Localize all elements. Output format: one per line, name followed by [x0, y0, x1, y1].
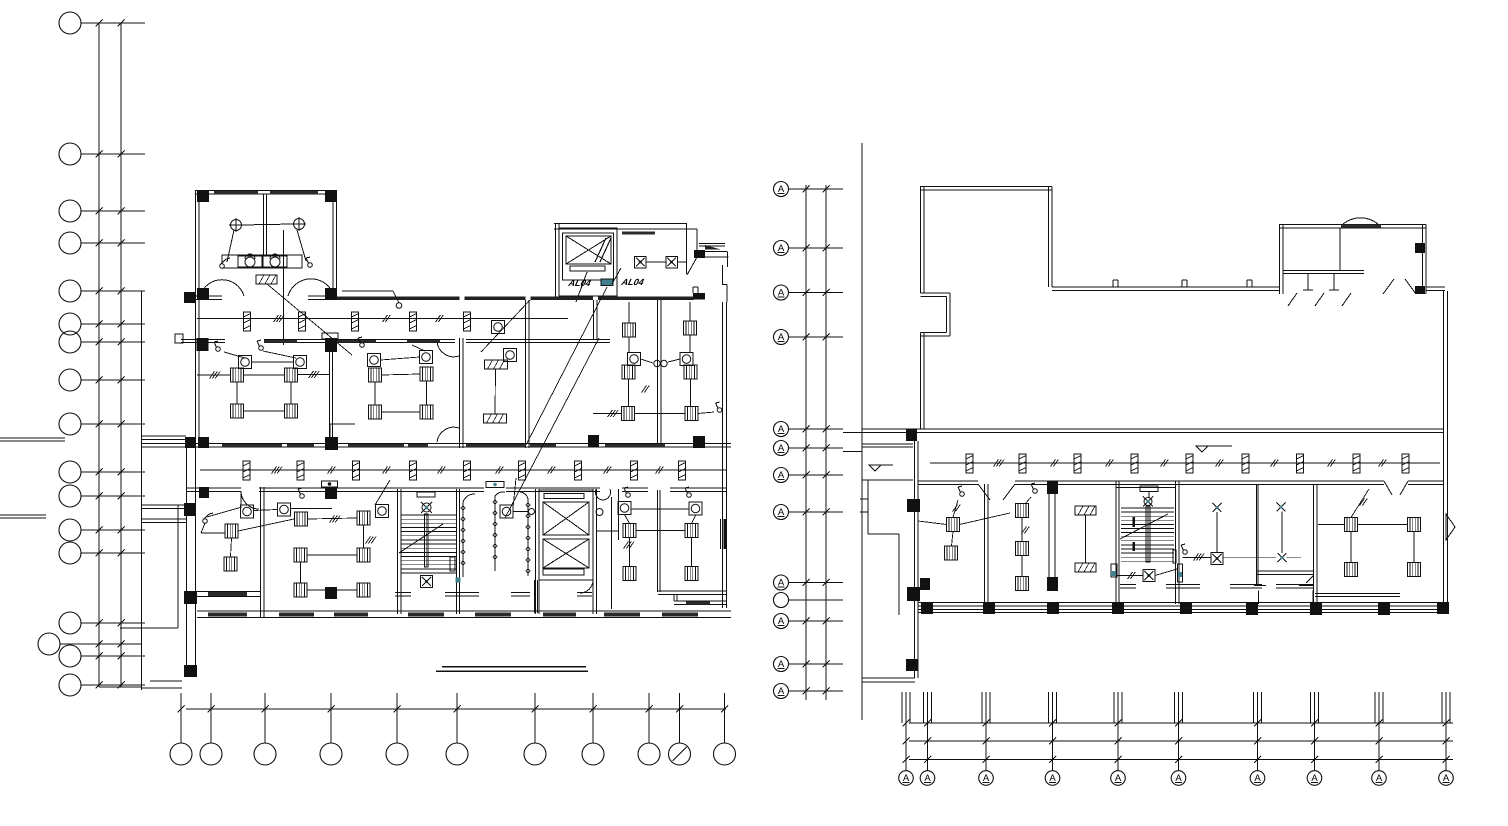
room B desk 1 [369, 368, 382, 382]
small room walls [860, 480, 899, 615]
bath mid wall [264, 194, 267, 255]
corridor2 fixture 4 [410, 461, 417, 480]
A line double y448 [843, 451, 862, 453]
rb grid stems 2 [924, 692, 932, 723]
corridor2 fixture 9 [679, 461, 686, 480]
wing fixture 8 [1353, 454, 1360, 473]
column bottom mid [325, 587, 337, 599]
stair fan xsq [421, 576, 433, 588]
ceiling light 2 [292, 217, 306, 231]
bottom grid bubble 11 [714, 693, 736, 765]
corridor2 fixture 6 [519, 461, 526, 480]
wall stub t3 [1247, 280, 1252, 287]
bath counter [222, 255, 302, 268]
column c2b 2 [325, 487, 337, 499]
room B switch [358, 337, 364, 347]
A bubble left 9 [774, 575, 844, 590]
rb grid bubble 1 [899, 720, 914, 786]
room A wire east [298, 374, 331, 376]
A bubble left 4 [774, 330, 844, 345]
room D desk top 2 [684, 321, 697, 335]
wing door ajar 2 [1384, 481, 1408, 495]
room E wire low [201, 523, 225, 533]
wing room E line [1315, 594, 1400, 597]
bottom grid bubble 4 [320, 693, 342, 765]
corridor2 fixture 8 [631, 461, 638, 480]
room G lamp 1 [618, 502, 631, 515]
room A lamp 1 [239, 356, 252, 369]
corridor2 slashes b [328, 467, 336, 474]
wire mirror diag [267, 284, 352, 355]
bottom grid bubble 3 [254, 693, 276, 765]
wall x659 [658, 300, 662, 444]
door arc room B bottom [437, 427, 459, 442]
wall wing v3 [1257, 484, 1259, 585]
stair2 arrows [1132, 517, 1135, 551]
A bubble left 3 [774, 285, 844, 300]
corridor2 fixture 5 [464, 461, 471, 480]
elevator2 bottom sill [543, 569, 584, 575]
wire light2 switch [297, 230, 306, 261]
room D wire h2 [635, 413, 685, 415]
block2 partition v [1339, 228, 1341, 270]
room D wire h3 [698, 412, 714, 414]
wing wire slashes g [1328, 460, 1336, 467]
column c2 1 [185, 437, 196, 448]
corridor1 switch [396, 303, 402, 309]
block left wall [556, 223, 560, 297]
corridor1 top wall [337, 297, 694, 301]
elevator 1 inner [563, 233, 614, 280]
grid bubble row 6 [59, 313, 145, 335]
elevator2 outer [539, 490, 593, 580]
stair2 treads [1121, 508, 1174, 561]
corridor1 fixture 1 [244, 312, 251, 331]
column block2 2 [1415, 286, 1425, 294]
room A wire d12 [244, 374, 285, 376]
rb grid bubble 4 [1045, 720, 1060, 786]
wire x611 [611, 497, 613, 609]
A bubble left 5 [774, 422, 844, 437]
wing fixture 2 [1019, 454, 1026, 473]
xcirc room1 a [1213, 503, 1222, 512]
corridor2 wire [200, 469, 727, 471]
corridor1 fixture 3 [352, 312, 359, 331]
level mark 1 [869, 465, 893, 471]
wing bottom column 4 [1112, 602, 1124, 614]
stair light xcirc [421, 502, 432, 513]
grid line vertical 3 [141, 291, 143, 690]
rb grid stems 7 [1254, 692, 1262, 723]
room D wire v1 [629, 302, 690, 352]
panel AL04 teal [601, 279, 613, 286]
basin 2 [270, 254, 280, 267]
right main vline lower [861, 682, 863, 720]
hall wire [513, 478, 529, 512]
block2 wall to edge [1426, 287, 1445, 291]
wire light1 switch [227, 230, 234, 262]
room A desk 4 [285, 404, 298, 418]
wing wire slashes e [1216, 460, 1224, 467]
corridor2 fixture 3 [353, 461, 360, 480]
room D lamp 2 [680, 353, 693, 366]
room B wire v1 [374, 382, 376, 405]
room F desk 4 [357, 548, 370, 562]
wire fan right [677, 261, 687, 263]
balcony lines NE [699, 244, 729, 258]
corridor1 wire slashes a [274, 315, 285, 322]
rb grid bubble 8 [1307, 720, 1322, 786]
wing room E wire v2 [1413, 532, 1415, 563]
bath left wall [196, 190, 200, 300]
wire diag long 2 [505, 338, 599, 518]
wing left wall [915, 441, 919, 678]
grid line vertical 2 [120, 23, 122, 687]
room D slashes2 [642, 386, 650, 393]
room E wire [231, 510, 295, 558]
rb grid bubble 3 [979, 720, 994, 786]
panel on wall 1 [322, 481, 338, 487]
grid bubble offset [38, 633, 141, 655]
block inner wall right [686, 224, 688, 275]
xcirc room2 b [1278, 553, 1287, 562]
room E lamp 1 [241, 505, 254, 518]
wire chain 1 [461, 502, 465, 577]
corridor2 slashes e [496, 467, 504, 474]
wing rooms top wall [918, 481, 1443, 485]
room B desk 3 [369, 405, 382, 419]
block2 left wall [1280, 224, 1284, 294]
column bath NE [325, 190, 337, 202]
rb grid bubble 10 [1439, 720, 1454, 786]
room bottom wall mid [395, 593, 592, 597]
left wall mid [196, 296, 200, 440]
scale bar [436, 667, 588, 672]
A bubble left 7 [774, 468, 844, 483]
rb grid stems 3 [982, 692, 990, 723]
door arc elevator hall [580, 580, 593, 593]
room G slashes [624, 542, 635, 549]
rooms top wall [181, 340, 610, 343]
chain arc 3 [520, 492, 528, 499]
wall x331 [330, 352, 333, 437]
room A desk 2 [285, 368, 298, 382]
room D wire v3 [628, 379, 630, 406]
site line vertical [177, 505, 179, 628]
room B wire v2 [426, 381, 428, 405]
column wing L1 [907, 499, 920, 512]
bottom grid bubble 9 [638, 693, 660, 765]
wire diag long 1 [526, 287, 607, 445]
wing bottom column 9 [1437, 602, 1449, 614]
grid bubble row 10 [59, 461, 145, 483]
wall stub t2 [1182, 280, 1187, 287]
rb grid stems 8 [1311, 692, 1319, 723]
grid bubble row 9 [59, 413, 145, 435]
column wing SW [920, 578, 930, 590]
room A slashes west [210, 372, 221, 379]
corridor2 bottom wall [186, 488, 727, 492]
hall lamp [500, 505, 513, 518]
A bubble left 10 [774, 614, 844, 629]
door mark right wall [1446, 514, 1455, 540]
room F wire v1 [363, 525, 365, 548]
bottom grid bubble 5 [386, 693, 408, 765]
A bubble left 1 [774, 182, 844, 197]
A line double y429 [843, 432, 862, 434]
room F wire h3 [307, 589, 357, 591]
svg-text:AL04: AL04 [620, 277, 645, 287]
wing bottom column 7 [1310, 603, 1322, 615]
plan bottom wall [197, 611, 731, 618]
wing partition caps [1254, 586, 1314, 605]
wing room E wire v1 [1350, 532, 1352, 563]
right wall bottom [723, 302, 727, 608]
wing wire slashes f [1271, 460, 1279, 467]
room F slashes [330, 516, 341, 523]
stair2 right wall [1176, 481, 1180, 604]
wing room B desks [1016, 504, 1029, 591]
room E wire west [207, 507, 242, 517]
wing room A desks [945, 518, 960, 561]
left wall bottom turn [142, 681, 183, 688]
stair room right wall [457, 489, 460, 614]
column mid left [197, 338, 209, 351]
terrace notch [921, 293, 951, 336]
rb grid stems 1 [902, 692, 910, 723]
room A wire d34 [244, 410, 285, 412]
bath bottom wall left [195, 296, 222, 300]
wire diag long 3 [481, 300, 530, 352]
wire from stair [1117, 572, 1143, 579]
bottom grid tick line [186, 708, 726, 710]
column block2 1 [1415, 243, 1425, 253]
corridor2 slashes a [272, 467, 283, 474]
door knob circle [596, 509, 603, 516]
room G lamp 2 [689, 502, 702, 515]
column left 1 [184, 503, 196, 516]
terrace inner top wall [1052, 287, 1279, 291]
grid bubble row 14 [59, 612, 145, 634]
panel on wall 2 [486, 482, 504, 488]
room B lamp 1 [368, 354, 381, 367]
wing bottom column 2 [983, 602, 995, 614]
xcirc room2 a [1277, 503, 1286, 512]
wing hatch fixtures [1075, 506, 1096, 572]
room F slashes2 [366, 537, 377, 544]
wing bottom column 3 [1047, 602, 1059, 614]
teal dot hall [1111, 571, 1116, 576]
corridor1 wire [197, 318, 568, 320]
room D desk bot 1 [622, 407, 635, 421]
wall left connector y436 [141, 436, 186, 440]
stair2 light [1143, 497, 1153, 507]
left wall bottom [187, 437, 196, 677]
room F desk 6 [357, 583, 370, 597]
room B desk 4 [420, 405, 433, 419]
room A desk 3 [231, 404, 244, 418]
room G desk 3 [623, 567, 636, 581]
wall wing v4 [1314, 484, 1318, 604]
bottom grid bubble 10 [669, 693, 691, 765]
room G wire lamps [631, 508, 690, 510]
column NE 2 [693, 293, 705, 300]
room C wire [494, 369, 497, 414]
room D desk bot 2 [685, 407, 698, 421]
room D wire v4 [690, 379, 692, 406]
wall stub left b [0, 515, 46, 518]
room bottom wall right [658, 591, 727, 605]
stub above column NE2 [693, 287, 698, 293]
room D switch [716, 402, 722, 412]
right main vline [861, 143, 863, 705]
stairs break line [399, 524, 443, 553]
room D desk top 1 [623, 323, 636, 337]
room A switch 1 [214, 341, 220, 351]
switch bath right [306, 257, 312, 267]
stall door 2 [1315, 293, 1324, 306]
wall x595 stub [594, 300, 598, 340]
room G wire v2 [691, 538, 693, 567]
terrace left wall [921, 187, 925, 294]
room A switch 2 [257, 340, 263, 350]
corridor2 fixture 1 [243, 461, 250, 480]
wing fixture 5 [1186, 454, 1193, 473]
terrace top wall [920, 187, 1052, 191]
room A wire v1 [236, 382, 238, 404]
switch bath left [220, 258, 230, 268]
column wing W [906, 429, 917, 441]
wall x461 [460, 338, 464, 448]
wire xcirc room2 [1281, 512, 1283, 554]
column bath SW outer [184, 292, 195, 303]
elevator2 top sill [544, 494, 584, 499]
block top line 2 [554, 228, 697, 230]
wing top wall [862, 429, 1443, 433]
grid bubble row 5 [59, 280, 145, 302]
wire chain 3 [526, 499, 530, 576]
wing door slash 2 [1306, 576, 1313, 583]
wall x618 [618, 489, 620, 540]
door arc hall top [595, 489, 610, 500]
stair2 fixture right [1178, 564, 1183, 582]
block wall x697 [696, 229, 698, 251]
wire lights [242, 224, 294, 225]
stairs treads [401, 515, 456, 573]
switch hall [1181, 544, 1187, 554]
stair2 top wall [1116, 487, 1176, 489]
right grid vline 2 [825, 185, 827, 700]
wire xcirc room2 h [1287, 557, 1302, 559]
room D slashes [608, 410, 619, 417]
stair2 left wall [1116, 481, 1119, 604]
room G switch 2 [685, 487, 691, 497]
site line horizontal [120, 627, 178, 629]
grid bottom tie [99, 686, 142, 688]
rb grid bubble 9 [1372, 720, 1387, 786]
wing wire slashes b [1051, 460, 1059, 467]
block top line 1 [554, 223, 687, 225]
grid bubble row 3 [59, 200, 145, 222]
room F desk 5 [294, 583, 307, 597]
room F desk 1 [295, 512, 308, 526]
wing room B switch [1025, 483, 1037, 504]
column wing mid top [1047, 481, 1058, 494]
grid bubble row 16 [59, 674, 145, 696]
wing wire slashes h [1379, 460, 1387, 467]
corridor1 fixture 4 [410, 312, 417, 331]
elevator 1 cab [566, 236, 611, 264]
rb grid bubble 2 [920, 720, 935, 786]
grid bubble row 4 [59, 232, 145, 254]
stair2 small rect [1173, 550, 1176, 563]
room A lamp 2 [294, 356, 307, 369]
bottom grid bubble 1 [170, 693, 192, 765]
A bubble left 12 [774, 684, 844, 699]
bath mirror hatched [256, 275, 277, 284]
window band NE [622, 232, 655, 235]
elevator2 top cab [543, 502, 589, 535]
wall wing v1 [985, 484, 989, 604]
block2 dome [1341, 218, 1381, 228]
room G desk 4 [685, 567, 698, 581]
grid bubble row 15 [59, 645, 145, 667]
corridor2 fixture 2 [297, 461, 304, 480]
wing wire slashes a [994, 460, 1005, 467]
room C hatch 2 [484, 414, 507, 423]
switch room F lamp [298, 488, 304, 498]
stairs rail [425, 514, 429, 567]
stair2 top box [1140, 486, 1158, 498]
column c2 5 [693, 436, 705, 448]
corridor2 slashes h [656, 467, 664, 474]
column wing mid bottom [1047, 577, 1058, 591]
bath arc left [200, 280, 244, 296]
wall stub left a [0, 438, 65, 441]
room E desk 2 [224, 557, 237, 571]
rb grid hline 1 [909, 722, 1453, 724]
stall wall 1 [1303, 274, 1313, 290]
corridor1 switch wire [342, 291, 399, 303]
column bath SE [325, 288, 337, 300]
block2 partition h [1283, 271, 1364, 274]
corridor1 fixture 2 [299, 312, 306, 331]
bottom grid bubble 7 [524, 693, 546, 765]
right grid vline 1 [805, 185, 807, 700]
room F wire v2 [300, 562, 302, 583]
corridor2 wire drop [330, 424, 355, 443]
column wing corner [906, 659, 918, 671]
small room left [862, 444, 913, 480]
wire diag roomF [375, 480, 390, 505]
room E lamp 2 [278, 503, 291, 516]
room bottom wall left [186, 592, 260, 597]
door arc room B top [437, 342, 459, 357]
wing fixture wire [930, 462, 1440, 464]
wing fixture 6 [1242, 454, 1249, 473]
wing room E desks [1345, 518, 1421, 577]
A bubble left 6 [774, 441, 844, 456]
column c2b 1 [199, 487, 209, 498]
room F lamp [376, 505, 389, 518]
grid bubble row 13 [59, 542, 145, 564]
grid bubble row 2 [59, 143, 145, 165]
switch room E door [203, 513, 213, 523]
wing bottom wall [918, 603, 1443, 613]
room D desk mid 2 [684, 365, 697, 379]
room E desk 1 [225, 524, 238, 538]
wing bottom column 1 [921, 602, 933, 614]
